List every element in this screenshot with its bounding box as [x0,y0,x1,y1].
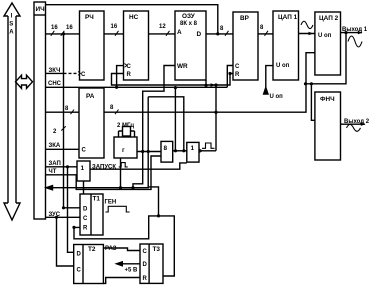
svg-text:R: R [143,276,148,282]
svg-text:16: 16 [66,25,73,31]
svg-text:Т2: Т2 [88,246,96,253]
svg-text:Т1: Т1 [93,196,101,203]
svg-text:D: D [197,31,202,38]
svg-text:D: D [83,207,88,213]
svg-text:ЗАП: ЗАП [49,161,61,167]
svg-text:1: 1 [191,145,195,152]
svg-text:РЧ: РЧ [85,14,94,21]
svg-text:ЧТ: ЧТ [49,169,57,175]
svg-text:С: С [77,268,82,274]
svg-text:С: С [82,148,87,154]
svg-text:С: С [127,64,132,70]
svg-text:R: R [235,72,240,78]
svg-text:ЦАП 2: ЦАП 2 [319,15,339,22]
svg-text:U оп: U оп [270,94,284,100]
svg-text:D: D [77,252,82,258]
svg-text:ЗАПУСК: ЗАПУСК [92,165,116,171]
svg-text:С: С [83,216,88,222]
svg-text:WR: WR [177,63,188,70]
svg-text:НС: НС [129,14,139,21]
svg-text:S: S [9,22,13,28]
svg-text:U оп: U оп [318,33,332,39]
svg-text:R: R [83,226,88,232]
svg-text:12: 12 [159,24,166,30]
svg-text:D: D [143,262,148,268]
svg-text:1: 1 [81,165,85,172]
svg-text:8: 8 [164,145,168,152]
svg-text:ЦАП 1: ЦАП 1 [278,14,298,21]
svg-text:А: А [177,29,182,36]
svg-text:С: С [143,249,148,255]
svg-text:Выход 1: Выход 1 [342,27,368,33]
svg-text:СНС: СНС [48,81,62,87]
svg-text:ГЕН: ГЕН [105,200,117,206]
svg-text:R: R [127,72,132,78]
svg-text:г: г [122,147,125,154]
svg-text:ФНЧ: ФНЧ [320,96,335,103]
svg-text:2 МГц: 2 МГц [117,123,134,129]
svg-text:16: 16 [51,25,58,31]
svg-text:8К х 8: 8К х 8 [180,21,198,27]
svg-text:Т3: Т3 [153,246,161,253]
svg-text:Выход 2: Выход 2 [344,119,370,125]
svg-text:+5 В: +5 В [125,268,139,274]
svg-text:С: С [235,64,240,70]
svg-text:ВР: ВР [240,15,250,22]
svg-text:U оп: U оп [276,63,290,69]
svg-text:ОЗУ: ОЗУ [182,13,196,20]
svg-text:РА: РА [86,93,95,100]
svg-text:ЗКА: ЗКА [49,143,61,149]
svg-text:ИЧ: ИЧ [36,6,46,13]
svg-text:РАЗ: РАЗ [105,246,117,252]
svg-text:16: 16 [111,24,118,30]
svg-text:A: A [9,30,14,36]
svg-text:ЗУС: ЗУС [49,212,61,218]
svg-text:ЗКЧ: ЗКЧ [49,68,61,74]
svg-text:С: С [81,72,86,78]
